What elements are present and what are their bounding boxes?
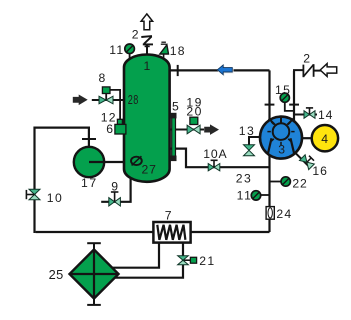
inflow arrow (hollow, left)	[320, 64, 337, 77]
gauge 11 (bottom)	[251, 191, 260, 200]
svg-text:25: 25	[49, 267, 64, 282]
label 28 inside vessel	[128, 93, 139, 107]
gauge 15	[280, 93, 289, 102]
solenoid square on valve 8	[102, 87, 110, 94]
valve 21	[178, 256, 189, 265]
label 17	[81, 176, 98, 190]
label 7	[165, 208, 172, 222]
label 10	[47, 191, 63, 205]
svg-text:18: 18	[170, 44, 186, 58]
relief valve 2 symbol	[141, 36, 153, 46]
wire relief-valve stem	[146, 45, 148, 56]
wire check-valve branch horizontal	[294, 70, 303, 72]
svg-text:27: 27	[142, 163, 157, 177]
purge valve 18	[160, 42, 169, 54]
label 23	[236, 171, 252, 185]
svg-text:20: 20	[186, 105, 202, 119]
svg-text:2: 2	[303, 52, 310, 66]
svg-text:17: 17	[81, 176, 98, 190]
inlet flow arrow (solid)	[73, 95, 87, 104]
compressor 3	[260, 117, 302, 159]
label 21	[199, 254, 215, 268]
valve 13	[244, 145, 255, 156]
label 5	[172, 100, 179, 114]
label 18	[170, 44, 186, 58]
wire compressor suction riser	[268, 153, 270, 232]
label 2 (check valve)	[303, 52, 310, 66]
svg-text:21: 21	[199, 254, 215, 268]
sight ellipse 27 on vessel	[131, 156, 142, 165]
flow arrow (blue, left) on vapor line	[217, 65, 233, 76]
wire heat-exchanger left drop to drier	[112, 242, 160, 268]
label 6	[106, 122, 113, 136]
solenoid square 19	[190, 117, 198, 124]
wire valve-8 inlet line	[92, 99, 126, 101]
solenoid square 21	[190, 257, 196, 263]
svg-text:4: 4	[321, 132, 328, 146]
valve 20	[187, 125, 200, 134]
wire gauge-15 stem	[285, 101, 294, 111]
vessel V1 (accumulator)	[124, 54, 170, 181]
gauge 22	[281, 177, 290, 186]
wire gauge-11 stem	[129, 52, 131, 60]
svg-text:22: 22	[292, 176, 307, 190]
wire valve-18 stem	[163, 52, 165, 59]
label 8	[99, 71, 106, 85]
svg-text:14: 14	[318, 108, 333, 122]
valve 10	[26, 189, 40, 200]
level gauge 5 tube	[171, 113, 177, 161]
svg-text:3: 3	[278, 143, 285, 157]
svg-text:16: 16	[312, 164, 328, 178]
label 22	[292, 176, 307, 190]
svg-text:23: 23	[236, 171, 252, 185]
outlet flow arrow (solid)	[205, 125, 219, 134]
valve 8	[99, 96, 113, 104]
label 11 (top gauge)	[109, 43, 124, 57]
svg-text:1: 1	[144, 59, 151, 73]
label 25	[49, 267, 64, 282]
wire solenoid-21 stem	[183, 259, 190, 261]
label 27	[142, 163, 157, 177]
valve 10A	[208, 160, 220, 171]
wire left loop (valve 10 leg)	[35, 128, 89, 233]
label 1 on vessel	[144, 59, 151, 73]
label 14	[318, 108, 333, 122]
wire stub after check valve	[314, 70, 322, 72]
svg-text:6: 6	[106, 122, 113, 136]
wire compressor suction drop left	[268, 70, 270, 124]
valve 16	[299, 155, 314, 170]
flange tick on right compressor drop	[289, 104, 299, 106]
wire solenoid-8 link down to injector 12	[106, 90, 120, 120]
label 16	[312, 164, 328, 178]
svg-text:28: 28	[128, 93, 139, 107]
pressure gauge 11 (top)	[125, 44, 135, 54]
label 4 on motor	[321, 132, 328, 146]
label 12	[101, 111, 117, 125]
wire oil pot to vessel	[89, 161, 126, 163]
label 13	[239, 124, 255, 138]
flange tick on vapor line	[177, 65, 179, 76]
wire heat-exchanger right drop via valve 21	[114, 242, 183, 278]
label 9	[111, 180, 118, 194]
svg-text:11: 11	[237, 189, 253, 203]
flange tick on left compressor drop	[265, 104, 275, 106]
flange tick above oil pot 17	[82, 138, 96, 140]
wire valve-13 stub	[249, 137, 261, 145]
wire vessel drain through valve 9	[101, 178, 130, 202]
svg-text:8: 8	[99, 71, 106, 85]
motor 4	[312, 125, 338, 151]
filter drier 25	[70, 243, 119, 305]
svg-text:24: 24	[276, 207, 292, 221]
wire gauge-22 stub	[270, 181, 283, 183]
labels 19 20	[186, 96, 202, 119]
label 10A	[203, 147, 227, 161]
svg-text:15: 15	[275, 83, 291, 97]
wire vessel vapor outlet to compressor drop	[168, 69, 270, 71]
wire heat-exchanger main line	[36, 231, 270, 233]
label 15	[275, 83, 291, 97]
injector fitting 12/6	[115, 119, 126, 134]
wire valve-14 branch	[294, 114, 317, 116]
svg-text:7: 7	[165, 208, 172, 222]
wire valve-16 diagonal stub	[295, 153, 309, 167]
label 3 on compressor	[278, 143, 285, 157]
svg-text:10A: 10A	[203, 147, 227, 161]
wire gauge-11b stub	[258, 194, 270, 196]
wire compressor to motor	[301, 137, 313, 139]
label 11 (bottom)	[237, 189, 253, 203]
svg-text:2: 2	[132, 28, 139, 42]
check valve 2 (discharge)	[303, 64, 313, 77]
valve 14	[304, 108, 315, 118]
oil pot vessel 17	[74, 147, 104, 177]
wire valve-20 outlet line	[169, 129, 204, 131]
wire liquid line through valve 10A	[169, 149, 270, 168]
vent arrow (hollow, up)	[141, 14, 153, 30]
svg-text:5: 5	[172, 100, 179, 114]
label 24	[276, 207, 292, 221]
label 2 (relief)	[132, 28, 139, 42]
svg-text:10: 10	[47, 191, 63, 205]
heat exchanger 7	[153, 222, 190, 243]
svg-text:13: 13	[239, 124, 255, 138]
svg-text:9: 9	[111, 180, 118, 194]
svg-text:11: 11	[109, 43, 124, 57]
wire check-valve branch vertical	[293, 71, 295, 124]
valve 9	[109, 192, 121, 206]
sight glass 24	[266, 207, 274, 220]
